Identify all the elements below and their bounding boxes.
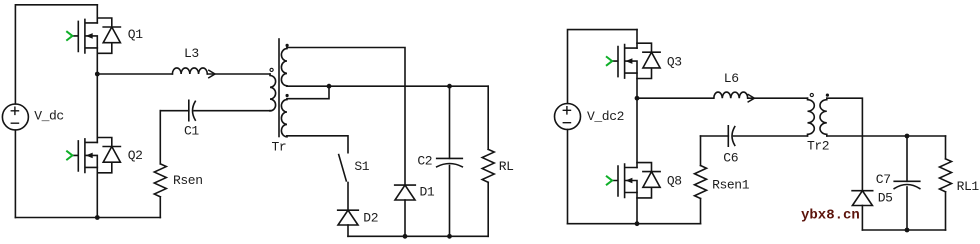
node B junction [635,96,640,101]
diode D1 [395,185,416,200]
wire: node A to L3 [97,73,172,75]
voltage source V_dc2 [555,104,581,130]
transistor Q1 [67,18,120,53]
svg-text:Rsen: Rsen [173,173,203,188]
wire: right left vertical bottom [567,130,569,224]
node A junction [95,72,100,77]
wire: left vertical bottom (V_dc- to bottom rail) [14,130,16,218]
svg-text:D2: D2 [363,210,378,225]
wire: C1 left [160,110,189,112]
svg-text:RL1: RL1 [957,179,980,194]
wire: RL1 bottom lead [945,192,947,230]
svg-text:ybx8.cn: ybx8.cn [801,208,860,224]
resistor RL [482,149,494,182]
wire: RL1 top lead [945,136,947,159]
wire: rail up to Rsen1 [700,199,702,224]
wire: bottom winding bottom lead to S1 [287,136,348,153]
resistor Rsen [154,164,166,197]
svg-text:C7: C7 [876,172,891,187]
wire: center tap to RL top [329,85,488,87]
wire: secondary bottom rail [348,235,488,237]
wire: RL bottom lead [487,182,489,236]
Tr primary polarity dot [270,68,273,71]
wire: Q3 source to node B [636,73,638,98]
transistor Q2 [67,138,120,173]
capacitor C1 [189,100,196,120]
wire: node B to Q8 drain [636,98,638,167]
wire: Q1 drain lead [96,5,98,23]
Tr secondary top dot [286,44,289,47]
Tr2 primary dot [810,93,813,96]
wire: Q1 source to node A [96,48,98,74]
svg-text:Q3: Q3 [667,54,682,69]
voltage source V_dc [2,104,28,130]
capacitor C6 [728,126,735,146]
wire: Rsen to bottom rail [159,197,161,218]
svg-text:C2: C2 [417,153,432,168]
svg-text:L6: L6 [724,71,739,86]
svg-text:V_dc2: V_dc2 [587,109,624,124]
svg-text:Rsen1: Rsen1 [712,177,750,192]
wire: C1 right to Tr primary bottom [194,110,270,112]
wire: top winding bottom lead (center tap) [287,85,329,87]
junction C2 rail [447,234,452,239]
wire: C2 top lead [449,86,451,158]
svg-text:D1: D1 [420,185,435,200]
wire: D5 to output rail [861,206,863,231]
svg-text:S1: S1 [354,159,369,174]
capacitor C2 [437,158,463,166]
transformer Tr2 primary winding [808,98,815,136]
transformer Tr primary winding [270,74,276,111]
wire: C7 bottom lead [906,187,908,230]
wire: C1 to Rsen [159,111,161,164]
wire: secondary top lead to D1 column [287,48,405,186]
wire: L6 to Tr2 primary top [748,97,808,99]
transformer Tr2 secondary winding [820,98,827,136]
junction C2 top [447,84,452,89]
Tr secondary bottom dot [286,94,289,97]
wire: Q2 source to bottom rail [96,167,98,217]
svg-text:Q8: Q8 [667,174,682,189]
wire: L3 to Tr primary top [207,73,270,75]
wire: C6 left lead [701,135,729,137]
wire: Q3 drain lead [636,30,638,48]
resistor RL1 [940,159,952,192]
wire: left vertical top (V_dc+ to top rail) [15,5,97,104]
svg-text:C6: C6 [723,151,738,166]
wire: bottom winding top lead + jog [287,86,329,99]
wire: C6 right to Tr2 primary bottom [734,135,808,137]
resistor Rsen1 [695,166,707,199]
capacitor C7 [894,181,920,188]
wire: right left vertical top [568,30,638,104]
svg-text:Tr2: Tr2 [807,139,829,154]
junction center tap [327,84,332,89]
wire: D2 to secondary rail [347,225,349,236]
wire: node B to L6 [637,97,714,99]
wire: output rail [862,229,945,231]
Tr secondary bottom winding [281,99,287,137]
svg-text:V_dc: V_dc [34,108,64,123]
wire: C2 bottom lead [449,166,451,237]
wire: S1 to D2 [347,183,349,211]
wire: Rsen1 top to C6 wire [700,136,702,166]
junction Q8 rail [635,221,640,226]
junction Q2 source rail [95,215,100,220]
wire: D1 to rail [404,200,406,236]
inductor L6 [714,92,755,102]
svg-text:RL: RL [499,159,514,174]
diode D5 [852,191,873,206]
wire: main bottom rail [15,217,160,219]
switch S1 [339,155,347,181]
wire: Q8 source to rail [636,193,638,224]
transistor Q3 [607,43,660,78]
transistor Q8 [607,163,660,198]
svg-text:Tr: Tr [272,139,287,154]
wire: C7 top lead [906,136,908,181]
wire: Tr2 secondary bottom to RL1 top [827,135,946,137]
wire: node A to Q2 drain [96,74,98,142]
diode D2 [338,210,359,225]
junction D1 rail [403,234,408,239]
svg-text:L3: L3 [184,46,199,61]
inductor L3 [172,68,215,78]
Tr core [278,39,280,137]
svg-text:Q1: Q1 [128,27,143,42]
svg-text:C1: C1 [184,124,199,139]
wire: Tr2 secondary top to D5 [827,98,863,191]
svg-text:D5: D5 [878,190,893,205]
junction C7 rail [905,228,910,233]
Tr secondary top winding [281,48,287,87]
Tr2 secondary dot [826,94,829,97]
wire: RL top lead [487,86,489,149]
svg-text:Q2: Q2 [128,148,143,163]
junction C7 top [905,134,910,139]
wire: right main rail [568,223,701,225]
